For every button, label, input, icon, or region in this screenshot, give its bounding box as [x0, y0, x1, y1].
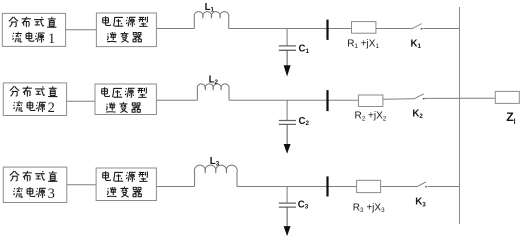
capacitor C3 — [279, 187, 296, 227]
wire — [460, 97, 496, 99]
svg-text:2: 2 — [48, 100, 55, 116]
wire — [156, 28, 194, 30]
switch K3 — [417, 182, 427, 187]
wire — [376, 28, 412, 30]
impedance box R2+jX2 — [358, 95, 383, 107]
breaker bar row3 — [326, 176, 328, 196]
svg-text:R2 +jX2: R2 +jX2 — [355, 111, 387, 123]
wire — [67, 184, 96, 186]
inverter box U1 电压源型逆变器 — [96, 13, 156, 47]
ground arrow — [284, 226, 291, 236]
wire — [229, 28, 352, 30]
ground arrow — [284, 65, 291, 76]
wire — [67, 100, 95, 102]
wire — [237, 186, 357, 188]
svg-text:C3: C3 — [298, 199, 309, 210]
svg-text:C1: C1 — [299, 43, 310, 54]
wire — [156, 186, 194, 188]
inductor L1 — [194, 12, 229, 29]
source box 分布式直流电源3 — [3, 167, 67, 202]
capacitor C1 — [279, 29, 296, 66]
capacitor C2 — [279, 100, 296, 144]
wire — [428, 186, 460, 188]
wire — [156, 99, 197, 101]
breaker bar row1 — [326, 20, 328, 40]
load box ZL — [495, 91, 519, 103]
inductor L2 — [197, 84, 229, 100]
source box 分布式直流电源2 — [3, 83, 66, 116]
bus — [459, 7, 461, 224]
svg-text:Zl: Zl — [506, 110, 515, 126]
svg-text:C2: C2 — [299, 116, 310, 127]
inverter box U2 电压源型逆变器 — [95, 84, 156, 115]
svg-text:L1: L1 — [205, 2, 215, 13]
wire — [66, 29, 97, 31]
svg-text:R1 +jX1: R1 +jX1 — [347, 39, 379, 51]
svg-text:L2: L2 — [209, 75, 219, 86]
impedance box R3+jX3 — [357, 180, 381, 192]
svg-text:K1: K1 — [411, 39, 422, 51]
svg-text:1: 1 — [48, 31, 55, 47]
wire — [381, 186, 417, 188]
inverter box U3 电压源型逆变器 — [96, 168, 156, 201]
inductor L3 — [194, 165, 237, 186]
switch K1 — [412, 24, 423, 29]
wire — [423, 28, 459, 30]
breaker bar row2 — [326, 90, 328, 111]
ground arrow — [284, 144, 291, 154]
wire — [229, 99, 358, 101]
wire — [425, 97, 460, 99]
svg-text:K3: K3 — [415, 197, 426, 209]
svg-text:3: 3 — [48, 186, 55, 202]
switch K2 — [414, 94, 425, 99]
svg-text:R3 +jX3: R3 +jX3 — [353, 203, 385, 215]
source box 分布式直流电源1 — [2, 13, 65, 46]
svg-text:L3: L3 — [210, 156, 220, 167]
impedance box R1+jX1 — [352, 22, 376, 34]
wire — [383, 98, 414, 101]
svg-text:K2: K2 — [412, 109, 423, 121]
